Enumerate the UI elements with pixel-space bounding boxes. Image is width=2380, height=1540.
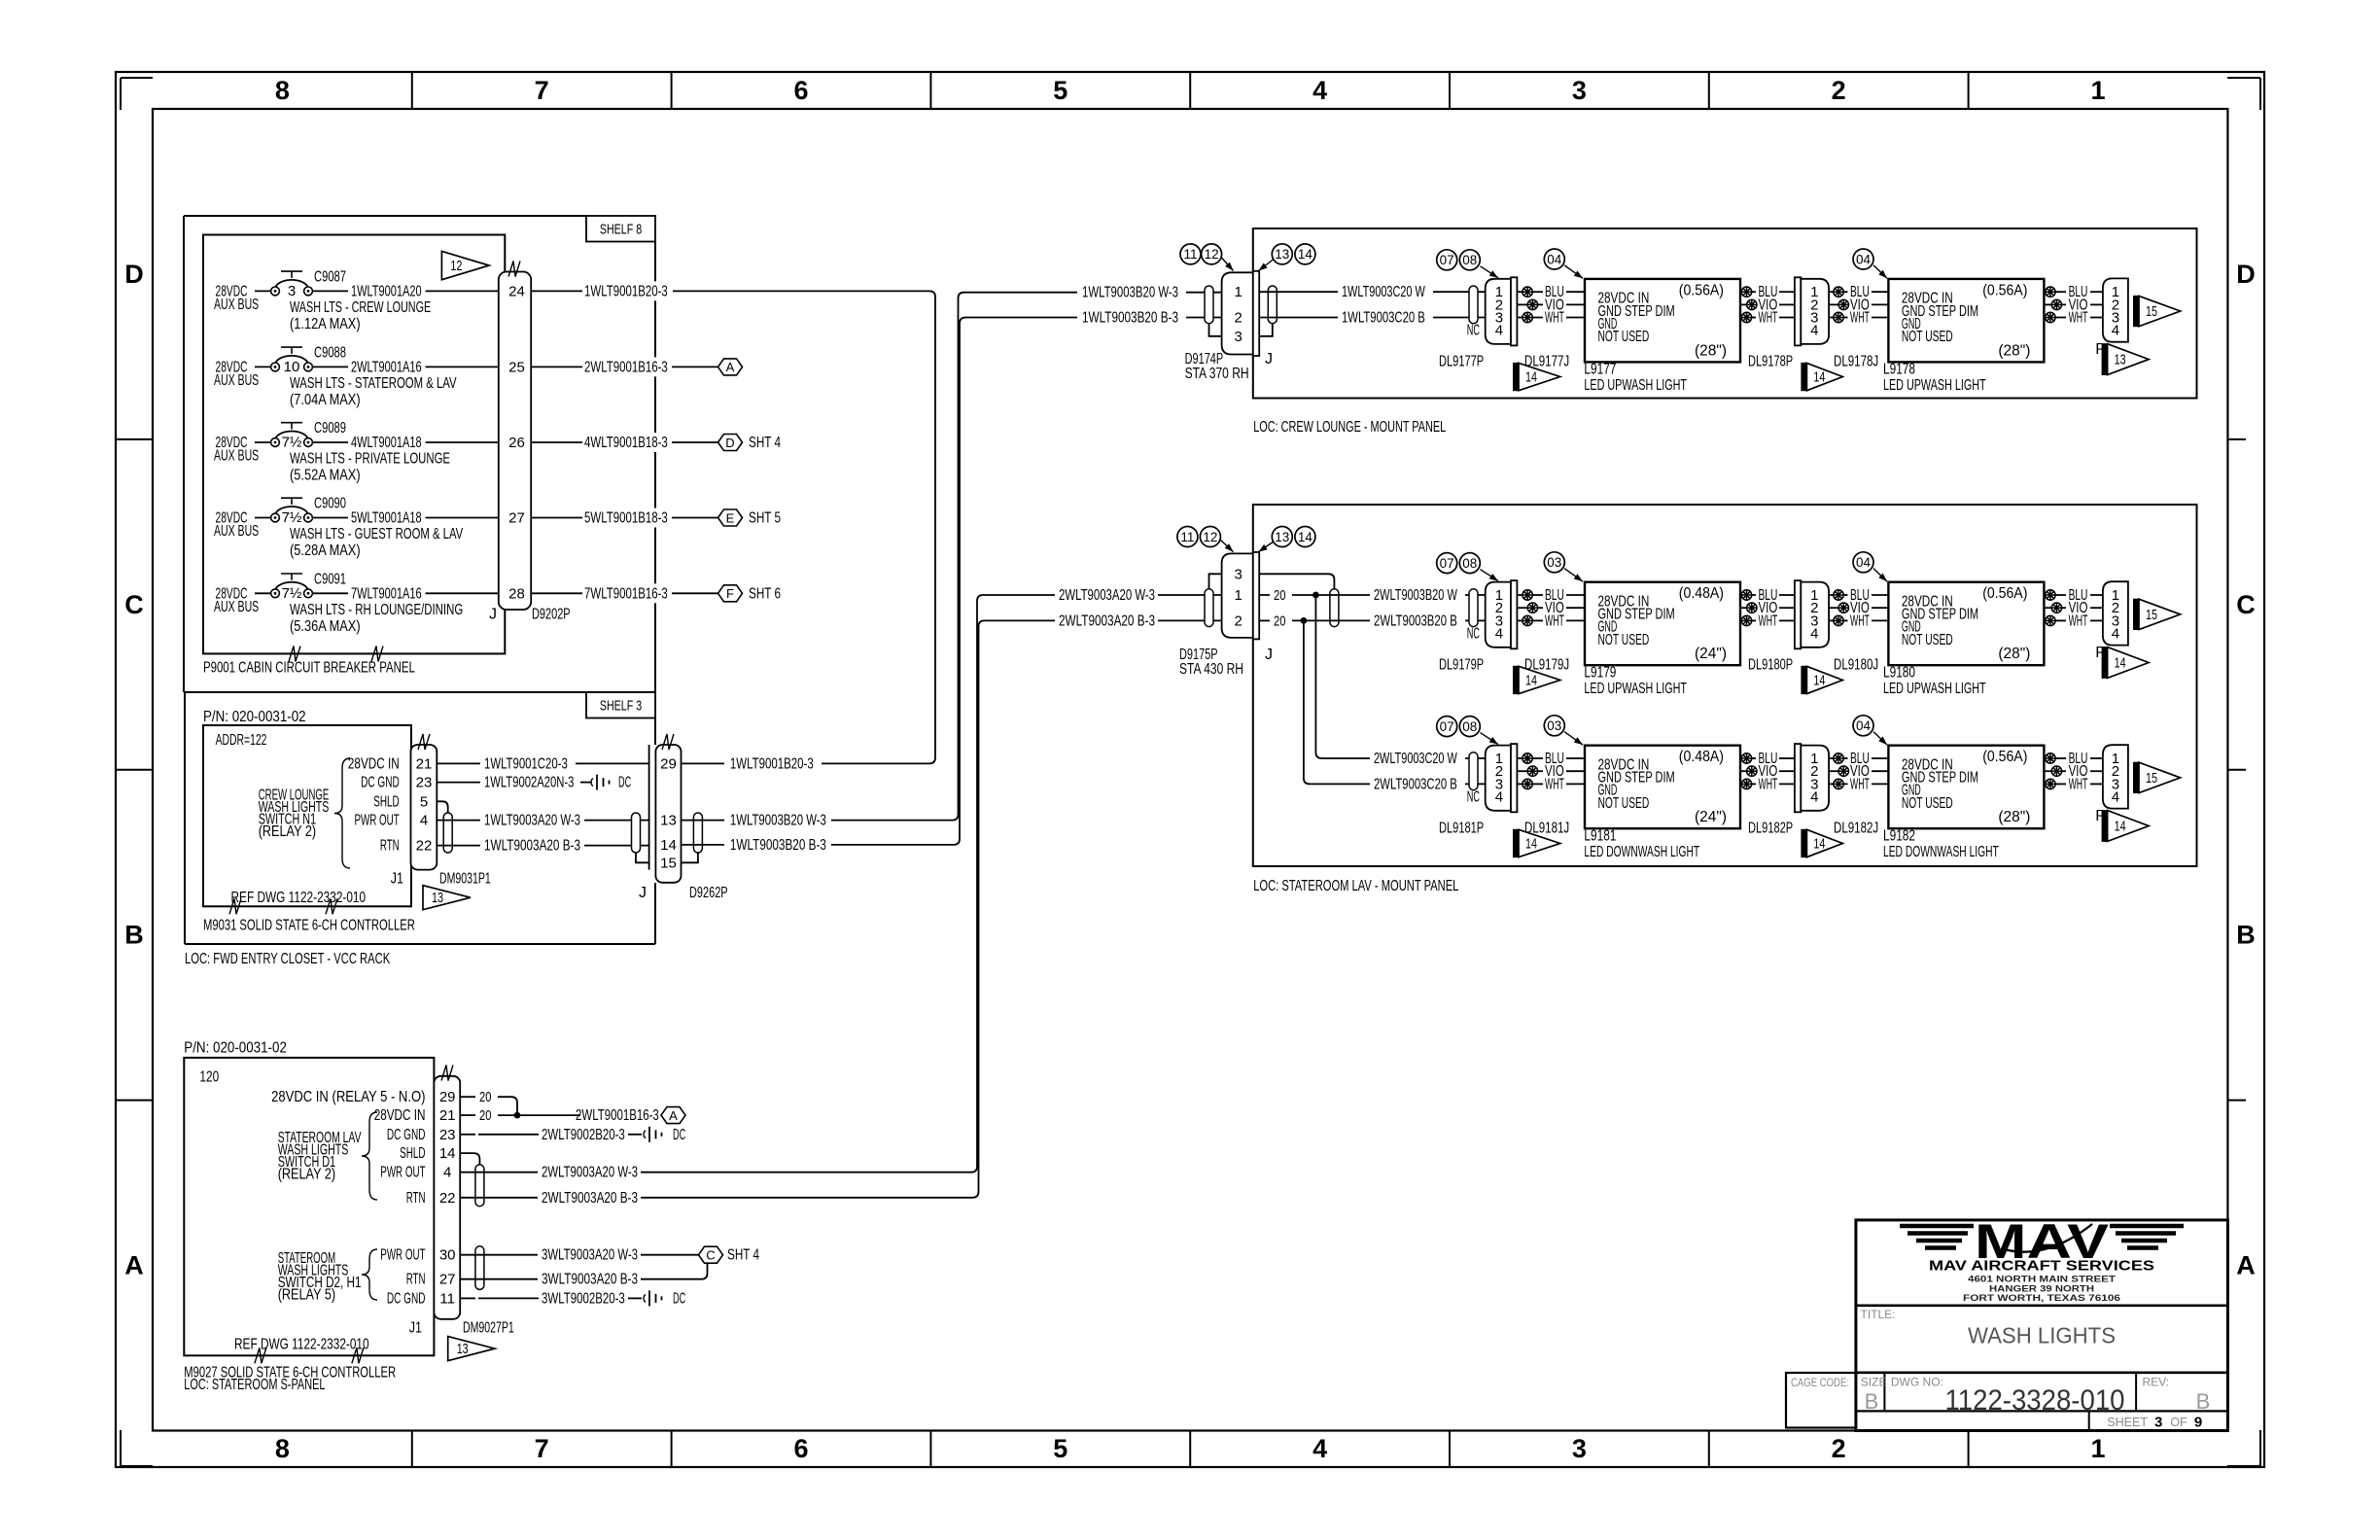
svg-text:2WLT9003C20 W: 2WLT9003C20 W [1374,751,1457,767]
svg-text:WHT: WHT [1850,310,1870,327]
svg-text:AUX BUS: AUX BUS [214,297,259,313]
svg-text:D: D [124,260,144,289]
svg-text:WHT: WHT [1759,612,1778,629]
svg-text:22: 22 [416,838,433,855]
svg-text:3: 3 [1572,76,1587,105]
svg-text:WHT: WHT [2069,612,2088,629]
svg-text:20: 20 [479,1089,491,1105]
svg-text:L9181: L9181 [1584,827,1616,844]
svg-text:08: 08 [1462,556,1477,571]
svg-text:1WLT9001B20-3: 1WLT9001B20-3 [730,755,814,772]
svg-text:12: 12 [1205,247,1219,262]
svg-text:20: 20 [1274,587,1285,604]
svg-text:A: A [669,1108,678,1123]
svg-text:P/N: 020-0031-02: P/N: 020-0031-02 [203,709,306,725]
svg-text:14: 14 [1525,370,1537,386]
svg-text:11: 11 [1180,530,1194,544]
svg-text:WHT: WHT [1545,612,1564,629]
svg-text:M9031 SOLID STATE 6-CH CONTROL: M9031 SOLID STATE 6-CH CONTROLLER [203,918,415,934]
svg-text:7½: 7½ [282,585,302,602]
svg-text:(0.56A): (0.56A) [1982,585,2027,602]
svg-text:DL9177P: DL9177P [1439,353,1484,369]
svg-text:DL9182J: DL9182J [1834,820,1878,836]
svg-text:07: 07 [1440,719,1454,734]
svg-text:28: 28 [508,585,525,602]
svg-text:(RELAY 5): (RELAY 5) [278,1286,335,1303]
svg-text:2WLT9001B16-3: 2WLT9001B16-3 [584,359,668,375]
svg-text:29: 29 [439,1089,456,1105]
svg-text:RTN: RTN [406,1272,426,1288]
svg-text:REF DWG 1122-2332-010: REF DWG 1122-2332-010 [231,890,367,906]
svg-text:4WLT9001B18-3: 4WLT9001B18-3 [584,435,668,451]
svg-text:DL9182P: DL9182P [1748,820,1793,836]
svg-text:DL9178P: DL9178P [1748,353,1793,369]
svg-text:1WLT9003B20 B-3: 1WLT9003B20 B-3 [1082,310,1178,327]
svg-text:12: 12 [1203,530,1217,544]
svg-text:4: 4 [1312,76,1327,105]
svg-text:1WLT9003B20 W-3: 1WLT9003B20 W-3 [1082,285,1178,301]
svg-text:NOT USED: NOT USED [1598,329,1650,345]
svg-text:11: 11 [1183,247,1197,262]
svg-text:D9202P: D9202P [532,607,571,623]
svg-text:AUX BUS: AUX BUS [214,372,259,389]
svg-text:3: 3 [288,283,296,299]
svg-text:3WLT9003A20 B-3: 3WLT9003A20 B-3 [542,1272,638,1288]
svg-text:LED UPWASH LIGHT: LED UPWASH LIGHT [1584,377,1687,394]
svg-text:RTN: RTN [406,1190,426,1207]
svg-text:1WLT9001B20-3: 1WLT9001B20-3 [584,283,668,299]
svg-text:A: A [726,360,735,374]
svg-text:DL9180P: DL9180P [1748,656,1793,673]
svg-text:DM9031P1: DM9031P1 [439,871,491,888]
svg-text:20: 20 [479,1107,491,1124]
svg-text:DC: DC [673,1127,685,1143]
svg-text:PWR OUT: PWR OUT [380,1247,425,1264]
svg-text:08: 08 [1462,253,1477,267]
svg-text:13: 13 [457,1342,469,1357]
svg-text:LED UPWASH LIGHT: LED UPWASH LIGHT [1883,377,1986,394]
svg-text:WHT: WHT [2069,310,2088,327]
svg-text:C9090: C9090 [314,496,346,512]
svg-text:NOT USED: NOT USED [1902,795,1953,812]
svg-text:9: 9 [2194,1415,2202,1431]
svg-text:13: 13 [432,891,443,906]
svg-text:2WLT9003B20 W: 2WLT9003B20 W [1374,587,1457,604]
svg-text:P9001 CABIN CIRCUIT BREAKER PA: P9001 CABIN CIRCUIT BREAKER PANEL [203,660,415,677]
svg-text:22: 22 [439,1190,456,1207]
svg-text:14: 14 [1525,837,1537,853]
svg-text:30: 30 [439,1247,456,1264]
svg-text:27: 27 [439,1272,456,1288]
svg-text:WASH LIGHTS: WASH LIGHTS [1968,1323,2116,1348]
svg-text:C: C [706,1248,715,1263]
svg-text:LOC: STATEROOM S-PANEL: LOC: STATEROOM S-PANEL [184,1377,325,1393]
svg-text:14: 14 [1298,530,1313,544]
svg-text:DM9027P1: DM9027P1 [463,1320,514,1337]
svg-text:1WLT9003A20 W-3: 1WLT9003A20 W-3 [484,813,580,829]
svg-text:DC GND: DC GND [387,1127,426,1143]
svg-text:E: E [726,510,735,525]
svg-text:B: B [124,921,144,950]
svg-text:(0.56A): (0.56A) [1982,749,2027,765]
svg-text:15: 15 [2146,771,2157,787]
svg-text:14: 14 [1813,837,1825,853]
svg-text:4: 4 [420,813,428,829]
svg-text:DL9179P: DL9179P [1439,656,1484,673]
svg-text:15: 15 [660,855,677,871]
svg-text:(24"): (24") [1695,809,1727,825]
svg-text:5: 5 [420,793,428,810]
svg-text:WASH LTS - RH LOUNGE/DINING: WASH LTS - RH LOUNGE/DINING [290,602,463,618]
svg-text:13: 13 [2115,353,2126,368]
svg-text:L9179: L9179 [1584,664,1616,681]
svg-text:2WLT9003B20 B: 2WLT9003B20 B [1374,612,1457,629]
svg-text:2: 2 [1832,1434,1846,1463]
svg-text:C9089: C9089 [314,420,346,437]
svg-text:1WLT9003C20 W: 1WLT9003C20 W [1342,284,1425,300]
svg-text:SHLD: SHLD [400,1145,425,1162]
svg-text:13: 13 [660,813,677,829]
svg-text:C: C [124,590,144,619]
svg-text:04: 04 [1856,718,1872,733]
svg-text:10: 10 [284,359,300,375]
svg-text:SIZE: SIZE [1861,1376,1887,1389]
svg-text:2WLT9002B20-3: 2WLT9002B20-3 [542,1127,625,1143]
svg-text:DC: DC [618,775,631,791]
svg-text:(28"): (28") [1998,809,2030,825]
svg-text:1WLT9003B20 W-3: 1WLT9003B20 W-3 [730,813,826,829]
svg-text:HANGER 39 NORTH: HANGER 39 NORTH [1989,1283,2094,1293]
svg-text:04: 04 [1547,252,1562,266]
svg-text:J: J [1265,351,1273,367]
svg-text:3: 3 [1235,329,1242,345]
svg-text:LED UPWASH LIGHT: LED UPWASH LIGHT [1883,681,1986,697]
svg-text:13: 13 [1275,247,1289,262]
svg-text:SHT 5: SHT 5 [749,510,781,527]
svg-text:(5.52A MAX): (5.52A MAX) [290,468,361,484]
svg-text:DC GND: DC GND [387,1290,426,1307]
svg-text:DL9181P: DL9181P [1439,820,1484,836]
svg-text:4: 4 [1495,789,1503,806]
svg-text:25: 25 [508,359,525,375]
svg-text:STA 430 RH: STA 430 RH [1179,661,1243,678]
svg-text:OF: OF [2170,1416,2187,1429]
svg-text:NOT USED: NOT USED [1902,632,1953,648]
svg-text:1WLT9003B20 B-3: 1WLT9003B20 B-3 [730,837,826,854]
svg-text:NOT USED: NOT USED [1598,795,1650,812]
svg-text:SHELF 3: SHELF 3 [600,698,642,715]
svg-text:SHELF 8: SHELF 8 [600,222,642,238]
svg-text:LOC: CREW LOUNGE - MOUNT PANEL: LOC: CREW LOUNGE - MOUNT PANEL [1253,419,1446,436]
svg-text:L9182: L9182 [1883,827,1915,844]
svg-text:B: B [1865,1389,1879,1414]
svg-text:D9262P: D9262P [689,885,728,901]
svg-text:3: 3 [1235,566,1242,582]
svg-text:04: 04 [1856,252,1872,266]
svg-text:14: 14 [660,837,677,854]
svg-text:STA 370 RH: STA 370 RH [1185,366,1249,382]
svg-text:1WLT9001C20-3: 1WLT9001C20-3 [484,755,568,772]
svg-text:24: 24 [508,283,525,299]
svg-text:(5.28A MAX): (5.28A MAX) [290,542,361,559]
svg-text:MAV AIRCRAFT SERVICES: MAV AIRCRAFT SERVICES [1929,1258,2154,1275]
svg-text:5: 5 [1053,1434,1067,1463]
svg-text:28VDC IN (RELAY 5 - N.O): 28VDC IN (RELAY 5 - N.O) [271,1089,425,1105]
svg-text:LED DOWNWASH LIGHT: LED DOWNWASH LIGHT [1883,844,1999,860]
svg-text:PWR OUT: PWR OUT [380,1165,425,1181]
svg-text:15: 15 [2146,304,2157,320]
svg-text:1: 1 [1235,284,1242,300]
svg-text:03: 03 [1547,718,1561,733]
svg-text:23: 23 [439,1127,456,1143]
svg-text:LOC: FWD ENTRY CLOSET - VCC RA: LOC: FWD ENTRY CLOSET - VCC RACK [185,951,390,967]
svg-text:J: J [639,885,647,901]
svg-text:L9178: L9178 [1883,361,1915,377]
svg-text:F: F [726,586,734,601]
svg-text:2WLT9001A16: 2WLT9001A16 [351,359,422,375]
svg-text:7: 7 [535,1434,549,1463]
svg-text:D: D [725,436,734,450]
svg-text:WASH LTS - STATEROOM & LAV: WASH LTS - STATEROOM & LAV [290,375,457,392]
svg-text:21: 21 [416,755,433,772]
svg-text:11: 11 [439,1290,455,1307]
svg-text:08: 08 [1462,719,1477,734]
svg-text:4601 NORTH MAIN STREET: 4601 NORTH MAIN STREET [1968,1275,2117,1284]
svg-text:WHT: WHT [1759,310,1778,327]
svg-text:28VDC IN: 28VDC IN [374,1107,426,1124]
svg-text:B: B [2236,921,2256,950]
svg-text:DC: DC [673,1290,685,1307]
svg-text:B: B [2196,1389,2211,1414]
svg-text:(1.12A MAX): (1.12A MAX) [290,316,361,332]
svg-text:5WLT9001B18-3: 5WLT9001B18-3 [584,510,668,527]
svg-text:7½: 7½ [282,509,302,526]
svg-text:2WLT9003A20 W-3: 2WLT9003A20 W-3 [542,1165,638,1181]
svg-text:C: C [2236,590,2256,619]
svg-text:(28"): (28") [1998,646,2030,662]
svg-text:07: 07 [1440,253,1454,267]
svg-text:27: 27 [508,510,525,527]
svg-text:AUX BUS: AUX BUS [214,599,259,615]
svg-text:ADDR=122: ADDR=122 [216,732,267,749]
svg-text:J1: J1 [391,871,403,888]
svg-text:4WLT9001A18: 4WLT9001A18 [351,435,422,451]
svg-text:NC: NC [1467,626,1480,643]
svg-text:(RELAY 2): (RELAY 2) [278,1166,335,1182]
svg-text:14: 14 [1813,674,1825,689]
svg-text:29: 29 [660,755,677,772]
svg-text:2WLT9003A20 B-3: 2WLT9003A20 B-3 [1059,612,1155,629]
svg-text:4: 4 [443,1165,451,1181]
svg-text:14: 14 [1813,370,1825,386]
svg-text:WHT: WHT [1545,776,1564,792]
svg-text:7: 7 [535,76,549,105]
svg-text:WASH LTS - PRIVATE LOUNGE: WASH LTS - PRIVATE LOUNGE [290,451,450,468]
svg-text:15: 15 [2146,608,2157,623]
svg-text:3: 3 [2154,1415,2162,1431]
svg-text:4: 4 [1810,323,1818,339]
svg-text:4: 4 [1810,626,1818,643]
svg-text:WHT: WHT [2069,776,2088,792]
svg-text:WHT: WHT [1759,776,1778,792]
svg-text:2WLT9003A20 W-3: 2WLT9003A20 W-3 [1059,587,1155,604]
svg-text:NC: NC [1467,789,1480,806]
svg-text:DL9178J: DL9178J [1834,353,1878,369]
svg-text:6: 6 [793,76,808,105]
svg-text:DL9180J: DL9180J [1834,656,1878,673]
svg-text:(28"): (28") [1998,342,2030,359]
svg-text:A: A [2236,1251,2256,1280]
svg-text:1WLT9001A20: 1WLT9001A20 [351,283,422,299]
svg-text:WHT: WHT [1545,310,1564,327]
svg-text:WHT: WHT [1850,776,1870,792]
svg-text:6: 6 [793,1434,808,1463]
svg-text:C9088: C9088 [314,344,346,361]
svg-text:(0.56A): (0.56A) [1982,282,2027,298]
svg-text:2: 2 [1832,76,1846,105]
svg-text:SHLD: SHLD [373,793,399,810]
svg-text:WASH LTS - CREW LOUNGE: WASH LTS - CREW LOUNGE [290,299,431,316]
svg-text:120: 120 [199,1068,219,1085]
svg-text:(7.04A MAX): (7.04A MAX) [290,392,361,408]
svg-text:4: 4 [1312,1434,1327,1463]
svg-text:14: 14 [1298,247,1313,262]
svg-text:1WLT9003C20 B: 1WLT9003C20 B [1342,310,1425,327]
svg-text:REF DWG 1122-2332-010: REF DWG 1122-2332-010 [234,1336,369,1352]
svg-text:(0.48A): (0.48A) [1679,749,1724,765]
svg-text:4: 4 [1810,789,1818,806]
svg-text:03: 03 [1547,555,1561,570]
svg-text:1: 1 [2090,76,2105,105]
svg-text:2WLT9003A20 B-3: 2WLT9003A20 B-3 [542,1190,638,1207]
svg-text:J: J [489,607,497,623]
svg-text:D: D [2236,260,2256,289]
svg-text:20: 20 [1274,612,1285,629]
svg-text:SHT 6: SHT 6 [749,585,781,602]
svg-text:1: 1 [2090,1434,2105,1463]
svg-text:4: 4 [1495,323,1503,339]
svg-text:SHT 4: SHT 4 [749,435,781,451]
svg-text:(0.56A): (0.56A) [1679,282,1724,298]
svg-text:J1: J1 [409,1320,422,1337]
svg-text:28VDC IN: 28VDC IN [348,755,400,772]
svg-text:4: 4 [2112,323,2119,339]
svg-text:5: 5 [1053,76,1067,105]
svg-text:(5.36A MAX): (5.36A MAX) [290,618,361,635]
svg-text:WASH LTS - GUEST ROOM & LAV: WASH LTS - GUEST ROOM & LAV [290,526,463,542]
svg-text:(28"): (28") [1695,342,1727,359]
svg-text:21: 21 [439,1107,456,1124]
svg-text:NC: NC [1467,323,1480,339]
svg-text:P/N: 020-0031-02: P/N: 020-0031-02 [184,1040,287,1057]
svg-text:AUX BUS: AUX BUS [214,448,259,465]
svg-text:2: 2 [1235,612,1242,629]
svg-text:DC GND: DC GND [361,775,400,791]
svg-text:SHEET: SHEET [2107,1416,2148,1429]
svg-text:2WLT9003C20 B: 2WLT9003C20 B [1374,776,1457,792]
svg-text:NOT USED: NOT USED [1598,632,1650,648]
svg-text:RTN: RTN [380,838,400,855]
svg-text:NOT USED: NOT USED [1902,329,1953,345]
svg-text:WHT: WHT [1850,612,1870,629]
svg-text:7½: 7½ [282,435,302,451]
svg-text:04: 04 [1856,555,1872,570]
svg-text:13: 13 [1275,530,1289,544]
svg-text:C9091: C9091 [314,571,346,587]
svg-text:L9177: L9177 [1584,361,1616,377]
svg-text:26: 26 [508,435,525,451]
svg-text:2: 2 [1235,310,1242,327]
svg-text:12: 12 [450,259,462,274]
svg-text:(0.48A): (0.48A) [1679,585,1724,602]
svg-text:AUX BUS: AUX BUS [214,523,259,540]
svg-text:4: 4 [2112,626,2119,643]
svg-text:LOC: STATEROOM LAV - MOUNT PAN: LOC: STATEROOM LAV - MOUNT PANEL [1253,878,1458,894]
svg-text:1122-3328-010: 1122-3328-010 [1945,1384,2125,1417]
svg-text:8: 8 [275,76,290,105]
svg-text:A: A [124,1251,144,1280]
svg-text:FORT WORTH, TEXAS 76106: FORT WORTH, TEXAS 76106 [1963,1293,2120,1303]
svg-text:7WLT9001A16: 7WLT9001A16 [351,585,422,602]
svg-text:4: 4 [2112,789,2119,806]
svg-text:4: 4 [1495,626,1503,643]
svg-text:3WLT9003A20 W-3: 3WLT9003A20 W-3 [542,1247,638,1264]
svg-text:DWG NO:: DWG NO: [1891,1376,1943,1389]
svg-text:1WLT9003A20 B-3: 1WLT9003A20 B-3 [484,838,580,855]
svg-text:L9180: L9180 [1883,664,1915,681]
svg-text:1: 1 [1235,587,1242,604]
svg-text:7WLT9001B16-3: 7WLT9001B16-3 [584,585,668,602]
svg-text:(RELAY 2): (RELAY 2) [259,823,316,840]
svg-text:(24"): (24") [1695,646,1727,662]
svg-text:LED DOWNWASH LIGHT: LED DOWNWASH LIGHT [1584,844,1699,860]
svg-text:2WLT9001B16-3: 2WLT9001B16-3 [576,1107,659,1124]
svg-text:07: 07 [1440,556,1454,571]
svg-text:14: 14 [2115,820,2126,835]
svg-text:14: 14 [2115,656,2126,672]
svg-text:LED UPWASH LIGHT: LED UPWASH LIGHT [1584,681,1687,697]
svg-text:23: 23 [416,775,433,791]
svg-text:C9087: C9087 [314,268,346,285]
svg-text:PWR OUT: PWR OUT [355,813,400,829]
svg-text:14: 14 [439,1145,456,1162]
svg-text:8: 8 [275,1434,290,1463]
svg-text:5WLT9001A18: 5WLT9001A18 [351,510,422,527]
svg-text:14: 14 [1525,674,1537,689]
svg-text:1WLT9002A20N-3: 1WLT9002A20N-3 [484,775,574,791]
svg-text:J: J [1265,647,1273,663]
svg-text:CAGE CODE:: CAGE CODE: [1791,1376,1849,1389]
svg-text:TITLE:: TITLE: [1861,1308,1896,1321]
svg-text:3: 3 [1572,1434,1587,1463]
svg-text:3WLT9002B20-3: 3WLT9002B20-3 [542,1290,625,1307]
svg-text:REV:: REV: [2143,1376,2170,1389]
svg-text:SHT 4: SHT 4 [727,1247,759,1264]
